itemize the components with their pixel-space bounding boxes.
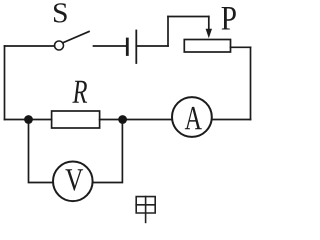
wire vertical up to top run: [167, 17, 169, 47]
label R: [72, 81, 87, 103]
wire node B to resistor: [100, 119, 123, 121]
wiper arrow stem: [208, 17, 210, 31]
ammeter A circle: [172, 97, 212, 137]
rheostat P body: [184, 40, 230, 53]
battery positive plate (long thin): [135, 31, 137, 64]
wire right vertical: [250, 47, 252, 119]
battery negative plate (short thick): [126, 39, 129, 55]
switch S lever arm: [63, 32, 89, 43]
wire resistor to node A: [29, 119, 52, 121]
caption 甲 (jiǎ) drawn strokes: [136, 197, 155, 223]
wire node A to left vertical: [5, 119, 29, 121]
wiper arrowhead: [206, 29, 212, 39]
wire switch to battery: [94, 45, 127, 47]
ammeter A letter: [185, 107, 202, 129]
wire left vertical: [4, 46, 6, 120]
wire top-left horizontal: [5, 45, 55, 47]
wire voltmeter to node B: [93, 120, 123, 183]
wire right corner to ammeter: [212, 119, 251, 121]
wire battery to corner: [136, 45, 168, 47]
node B junction dot: [118, 115, 127, 124]
label S: [54, 3, 67, 22]
label P: [222, 7, 236, 30]
switch S pivot circle: [55, 41, 64, 50]
resistor R body: [52, 111, 100, 128]
node A junction dot: [24, 115, 33, 124]
voltmeter V circle: [53, 162, 93, 202]
wire node A down to voltmeter: [29, 120, 54, 183]
wire rheostat to right corner: [231, 46, 251, 48]
wire ammeter to node B: [123, 119, 172, 121]
wire top run to wiper: [168, 16, 209, 18]
voltmeter V letter: [65, 169, 83, 190]
